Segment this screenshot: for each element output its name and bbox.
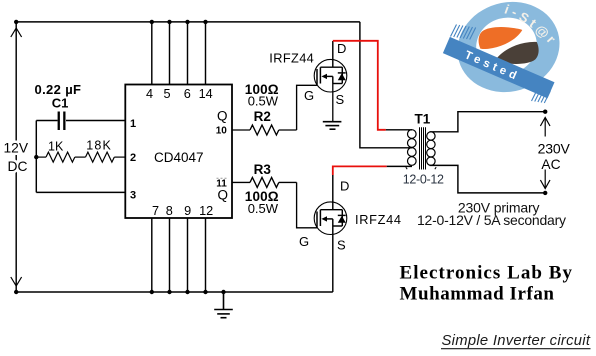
svg-text:R2: R2 bbox=[254, 109, 271, 124]
svg-text:0.5W: 0.5W bbox=[248, 201, 279, 216]
svg-text:6: 6 bbox=[184, 87, 191, 101]
ground bottom bbox=[214, 292, 233, 318]
svg-text:T1: T1 bbox=[415, 111, 431, 126]
svg-text:Simple Inverter circuit: Simple Inverter circuit bbox=[442, 333, 591, 349]
wire pin3 bbox=[36, 191, 125, 193]
wire left rail bbox=[15, 22, 17, 292]
svg-text:12V: 12V bbox=[4, 141, 29, 156]
svg-text:10: 10 bbox=[216, 126, 228, 137]
ground top mosfet bbox=[323, 84, 342, 130]
wire top rail bbox=[16, 21, 360, 23]
svg-text:2: 2 bbox=[130, 152, 136, 164]
svg-text:8: 8 bbox=[166, 204, 173, 218]
svg-text:C1: C1 bbox=[52, 95, 69, 110]
svg-text:9: 9 bbox=[184, 204, 191, 218]
arrow down output bbox=[540, 170, 550, 189]
logo hatch right bbox=[532, 89, 551, 103]
svg-text:1K: 1K bbox=[48, 140, 64, 154]
node output top bbox=[543, 110, 547, 114]
logo hatch left bbox=[451, 25, 476, 40]
logo ring bbox=[447, 0, 571, 104]
svg-text:3: 3 bbox=[130, 190, 136, 202]
svg-text:12: 12 bbox=[199, 204, 213, 218]
svg-text:5: 5 bbox=[163, 87, 170, 101]
node pins 7,8,9,12 bbox=[150, 290, 208, 294]
wire bottom pin stubs bbox=[152, 218, 206, 292]
capacitor C1 bbox=[36, 120, 125, 122]
svg-text:AC: AC bbox=[541, 157, 560, 172]
wire primary top lead bbox=[386, 129, 412, 131]
node top-left bbox=[14, 20, 18, 24]
svg-text:D: D bbox=[340, 179, 349, 194]
wire red drain bottom to transformer bbox=[333, 166, 387, 175]
node RC junction bbox=[34, 155, 38, 159]
node ground junction bbox=[221, 290, 225, 294]
node output bottom bbox=[543, 191, 547, 195]
label 12V DC bbox=[4, 141, 29, 175]
resistor R2 bbox=[232, 85, 317, 135]
wire vertical feed to center tap bbox=[360, 22, 412, 148]
wire red drain top to transformer bbox=[333, 41, 386, 130]
wire source bottom mosfet to rail bbox=[332, 226, 334, 292]
logo i-St@r badge bbox=[443, 0, 570, 104]
wire secondary top lead bbox=[430, 112, 546, 132]
wire top pin stubs bbox=[152, 22, 206, 85]
svg-text:R3: R3 bbox=[254, 162, 272, 177]
svg-text:G: G bbox=[299, 234, 309, 249]
svg-text:Q: Q bbox=[217, 108, 228, 123]
wire secondary bottom lead bbox=[430, 165, 546, 193]
node pins 4,5,6,14 bbox=[150, 20, 208, 24]
svg-text:12-0-12V / 5A secondary: 12-0-12V / 5A secondary bbox=[417, 212, 566, 228]
resistor 18K bbox=[86, 152, 126, 162]
svg-text:DC: DC bbox=[8, 159, 28, 174]
svg-text:Q: Q bbox=[218, 188, 229, 203]
transistor Q1 IRFZ44 top bbox=[314, 41, 347, 92]
svg-text:S: S bbox=[336, 92, 345, 107]
resistor R3 bbox=[232, 177, 317, 227]
svg-text:230V: 230V bbox=[538, 140, 571, 156]
wire RC node column bbox=[35, 121, 37, 193]
svg-text:1: 1 bbox=[130, 118, 136, 130]
svg-text:7: 7 bbox=[152, 204, 159, 218]
arrow down on left rail bbox=[11, 277, 22, 286]
svg-text:G: G bbox=[304, 88, 314, 103]
svg-text:4: 4 bbox=[146, 87, 153, 101]
svg-text:18K: 18K bbox=[86, 139, 111, 153]
svg-text:S: S bbox=[337, 238, 346, 253]
node bottom-left bbox=[14, 290, 18, 294]
logo dark swoosh bbox=[495, 42, 539, 64]
arrow up output bbox=[540, 118, 550, 137]
svg-text:Muhammad Irfan: Muhammad Irfan bbox=[400, 284, 555, 305]
logo orange swoosh bbox=[479, 27, 523, 49]
IC U1 CD4047 bbox=[125, 85, 232, 219]
resistor 1K bbox=[36, 152, 85, 162]
logo banner bbox=[443, 37, 555, 98]
svg-text:14: 14 bbox=[199, 87, 213, 101]
arrow up on left rail bbox=[11, 28, 22, 37]
transistor Q2 IRFZ44 bottom bbox=[314, 175, 347, 235]
svg-text:12-0-12: 12-0-12 bbox=[403, 173, 444, 187]
svg-text:D: D bbox=[337, 41, 346, 56]
tick marks under coil bbox=[406, 167, 407, 169]
transformer T1 bbox=[406, 127, 436, 169]
svg-text:IRFZ44: IRFZ44 bbox=[269, 51, 314, 66]
svg-text:CD4047: CD4047 bbox=[154, 150, 204, 165]
svg-text:IRFZ44: IRFZ44 bbox=[355, 212, 401, 227]
logo i-St@r text bbox=[503, 2, 559, 47]
svg-text:0.5W: 0.5W bbox=[248, 93, 279, 108]
wire bottom rail bbox=[16, 291, 333, 293]
wire primary bottom lead bbox=[387, 165, 412, 167]
svg-text:Electronics Lab By: Electronics Lab By bbox=[400, 263, 573, 284]
